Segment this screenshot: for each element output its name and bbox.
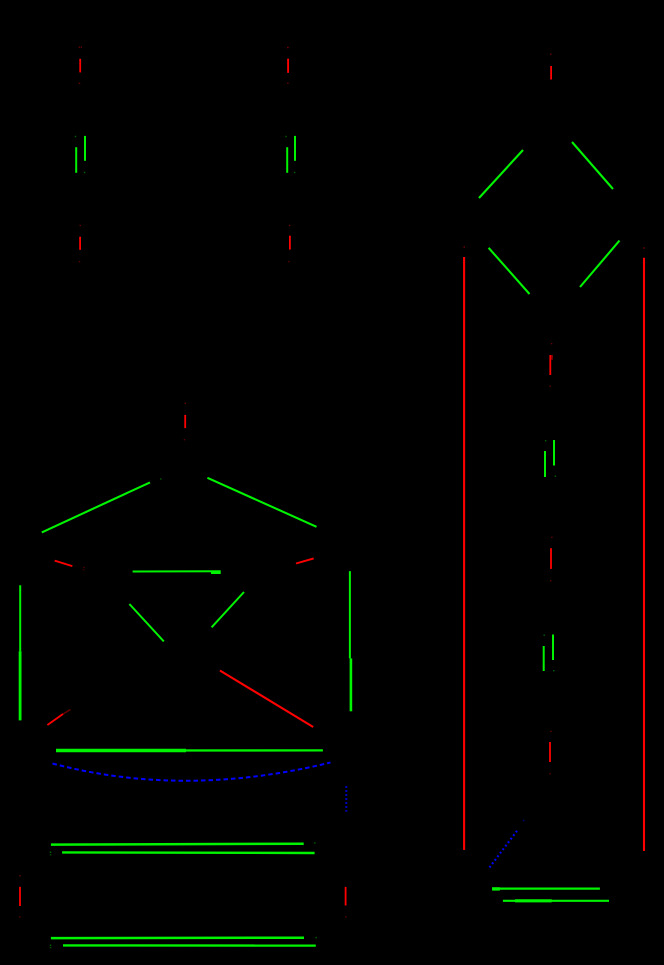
- wire C5-C6 green edge b: [544, 646, 555, 671]
- wire T-RU green edge: [207, 478, 316, 527]
- wire C2-C3 red edge: [550, 343, 553, 387]
- wire RU-RL green edge: [350, 571, 351, 711]
- wire A2-A3 green edge a: [75, 136, 85, 161]
- wire DL-DR green edge a: [492, 887, 600, 890]
- wire R2-R3 red edge: [345, 887, 346, 918]
- chain 2: node B1 (invisible): [0, 0, 1, 1]
- wire L2-R2 green edge b: [50, 852, 315, 856]
- wire M-RL red edge: [220, 671, 313, 728]
- wire A2-A3 green edge b: [76, 147, 85, 173]
- wire L2-R2 green edge a: [51, 842, 316, 844]
- wire C1-CR diamond upper-right green edge: [572, 142, 613, 189]
- wire B2-B3 green edge b: [287, 147, 295, 173]
- chain 1: node A1 (invisible): [0, 0, 1, 1]
- wire RL-R2 blue dotted edge: [345, 786, 347, 811]
- wire A1-A2 red edge: [79, 47, 82, 85]
- wire C6-C7 red edge: [549, 731, 551, 775]
- wire CR-DR long red edge: [643, 247, 645, 851]
- wire LU-LL green edge: [19, 585, 21, 720]
- wire M1-C green edge: [133, 571, 221, 573]
- wire C3-C4 green edge a: [545, 440, 554, 466]
- wire LL-RL blue dashed arc edge: [53, 763, 331, 781]
- wire Ttop-T red edge: [184, 403, 186, 441]
- big component: node T (invisible): [0, 0, 1, 1]
- wire CR-C2 diamond lower-right green edge: [580, 241, 620, 287]
- wire B1-B2 red edge: [287, 47, 289, 84]
- wire C4-C5 red edge: [550, 537, 553, 582]
- wire LU-M1 red edge: [55, 561, 85, 571]
- wire C3-C4 green edge b: [545, 451, 556, 477]
- wire L3-R3 green edge b: [50, 945, 316, 949]
- wire DL-DR green edge b: [503, 900, 609, 902]
- wire T-LU green edge: [42, 478, 162, 532]
- wire CL-C2 diamond lower-left green edge: [489, 248, 530, 294]
- wire L3-R3 green edge a: [51, 937, 317, 938]
- wire LL-M red edge: [47, 710, 70, 726]
- wire C5-C6 green edge a: [544, 635, 554, 661]
- wire CL-DL long red edge: [463, 246, 465, 850]
- wire B2-B3 green edge a: [285, 136, 295, 161]
- wire C-M green edge: [212, 592, 244, 627]
- wire B3-B4 red edge: [288, 225, 290, 262]
- wire M1-M green edge: [129, 604, 163, 641]
- wire C1-CL diamond upper-left green edge: [479, 150, 523, 198]
- wire C7-DL blue dashed edge: [490, 820, 525, 868]
- wire C0-C1 red edge: [550, 54, 551, 80]
- wire L2-L3 red edge: [19, 875, 21, 918]
- wire LL-RL green edge: [56, 749, 323, 751]
- wire A3-A4 red edge: [79, 225, 81, 262]
- wire C-RU red edge: [296, 558, 314, 563]
- right column: node C0 (invisible): [0, 0, 1, 1]
